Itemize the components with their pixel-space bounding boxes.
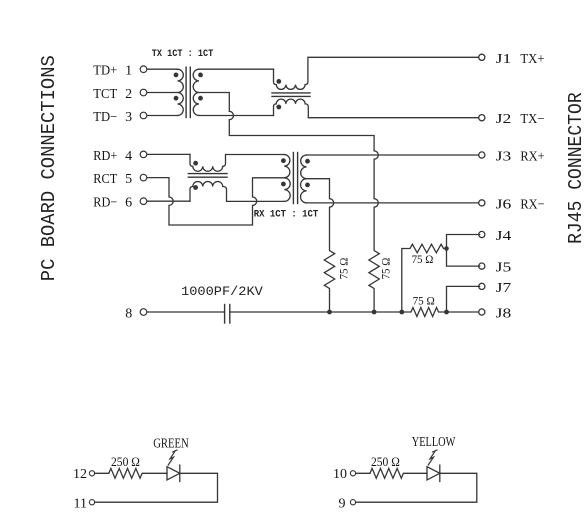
svg-text:75 Ω: 75 Ω [337,258,351,280]
svg-text:RD+: RD+ [93,149,117,164]
svg-text:TD+: TD+ [93,64,117,79]
svg-text:RD−: RD− [93,196,117,211]
svg-text:9: 9 [339,496,346,509]
svg-text:4: 4 [125,149,132,164]
svg-text:J8: J8 [496,307,512,322]
svg-text:RJ45 CONNECTOR: RJ45 CONNECTOR [565,92,586,244]
svg-text:TD−: TD− [93,110,117,125]
svg-text:1000PF/2KV: 1000PF/2KV [181,284,263,299]
svg-text:J3: J3 [496,150,512,165]
svg-text:3: 3 [125,110,132,125]
svg-text:TCT: TCT [93,87,117,102]
svg-text:5: 5 [125,172,132,187]
svg-text:RX 1CT : 1CT: RX 1CT : 1CT [254,210,318,221]
svg-text:250 Ω: 250 Ω [111,454,140,469]
svg-text:J1: J1 [496,52,512,67]
svg-text:12: 12 [73,467,87,482]
svg-text:PC BOARD CONNECTIONS: PC BOARD CONNECTIONS [38,55,60,281]
svg-text:GREEN: GREEN [153,436,189,451]
svg-text:250 Ω: 250 Ω [371,454,400,469]
svg-text:J5: J5 [496,261,512,276]
svg-text:2: 2 [125,87,132,102]
svg-text:J6: J6 [496,197,512,212]
svg-text:75 Ω: 75 Ω [413,294,435,308]
svg-text:RCT: RCT [93,172,117,187]
svg-text:6: 6 [125,196,132,211]
svg-text:J4: J4 [496,229,512,244]
svg-text:75 Ω: 75 Ω [412,252,434,266]
svg-text:J7: J7 [496,281,512,296]
svg-text:TX−: TX− [520,112,544,127]
svg-text:75 Ω: 75 Ω [379,258,393,280]
svg-text:8: 8 [125,307,132,322]
svg-text:1: 1 [125,64,132,79]
svg-text:TX 1CT : 1CT: TX 1CT : 1CT [152,49,214,60]
svg-text:YELLOW: YELLOW [412,435,456,450]
svg-text:11: 11 [74,496,87,509]
svg-text:TX+: TX+ [520,52,544,67]
svg-text:10: 10 [333,467,347,482]
svg-text:J2: J2 [496,112,512,127]
svg-text:RX−: RX− [520,197,544,212]
svg-text:RX+: RX+ [520,150,544,165]
